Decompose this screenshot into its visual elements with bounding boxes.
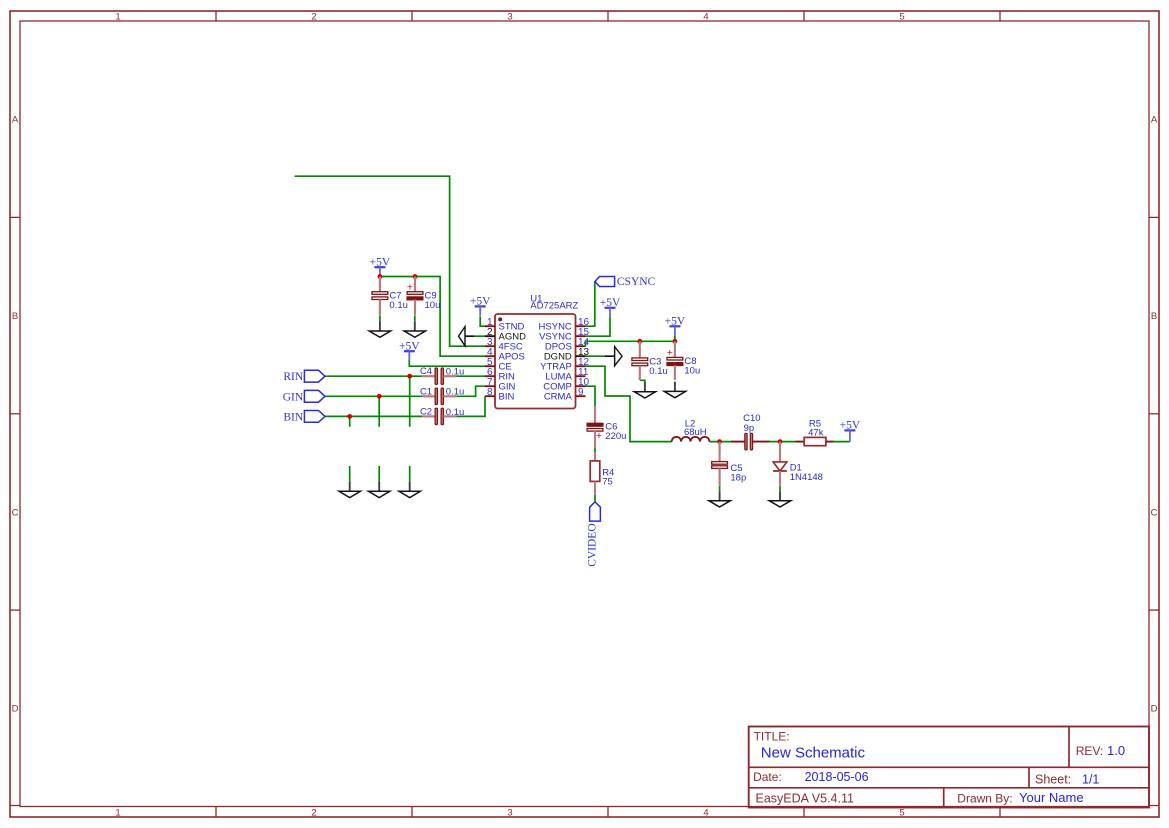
U1 pin 9 CRMA [544, 387, 586, 403]
U1 pin 16 HSYNC [539, 317, 590, 333]
svg-text:5: 5 [899, 808, 904, 819]
svg-text:75: 75 [602, 477, 613, 488]
svg-text:0.1u: 0.1u [446, 387, 465, 398]
svg-text:C1: C1 [420, 386, 432, 397]
wire BIN row [325, 415, 422, 417]
svg-text:9p: 9p [744, 423, 755, 434]
node junction GIN row [377, 394, 382, 399]
capacitor C6 220u [587, 406, 626, 447]
svg-text:1: 1 [115, 808, 120, 819]
power flag +5V at pin 1 [470, 296, 491, 316]
svg-text:Date:: Date: [753, 770, 782, 784]
wire C4 to pin 6 RIN [456, 375, 485, 377]
U1 pin 12 YTRAP [540, 357, 589, 373]
frame row letters right [1151, 115, 1158, 715]
svg-text:New Schematic: New Schematic [761, 745, 866, 762]
capacitor C9 10u [407, 277, 441, 316]
node junction C10 D1 [778, 439, 783, 444]
svg-text:1.0: 1.0 [1107, 743, 1125, 758]
svg-text:AD725ARZ: AD725ARZ [530, 301, 578, 312]
svg-text:220u: 220u [605, 431, 626, 442]
frame column numbers bottom [115, 808, 904, 819]
svg-text:EasyEDA V5.4.11: EasyEDA V5.4.11 [756, 792, 854, 806]
svg-text:+: + [596, 430, 602, 442]
wire R5 to +5V [834, 441, 850, 443]
ground below C8 [664, 382, 685, 398]
svg-text:5: 5 [899, 12, 904, 23]
ground below C3 [634, 382, 655, 398]
net port DGND arrow [605, 347, 623, 366]
svg-text:4: 4 [703, 12, 708, 23]
op-amp U1 AD725ARZ chip body [495, 293, 579, 408]
power flag +5V at pin 15 [600, 297, 621, 317]
svg-text:0.1u: 0.1u [389, 300, 408, 311]
wire +5V flag to pin 1 STND [480, 316, 485, 326]
svg-text:18p: 18p [730, 472, 746, 483]
resistor R4 75 [590, 452, 614, 494]
frame column ticks bottom [216, 807, 1000, 818]
resistor R5 47k [796, 419, 834, 446]
diode D1 1N4148 [773, 442, 823, 487]
ground below C9 [404, 316, 425, 338]
svg-text:0.1u: 0.1u [649, 366, 668, 377]
wire C10 to D1 node [770, 441, 796, 443]
U1 pin 6 RIN [485, 367, 515, 383]
svg-text:C2: C2 [420, 406, 432, 417]
frame row ticks left [10, 217, 20, 610]
svg-text:CVIDEO: CVIDEO [587, 523, 599, 566]
svg-text:1/1: 1/1 [1082, 773, 1099, 787]
wire +5V rail C7-C9 to pin 4 APOS [380, 277, 485, 357]
power flag +5V at C7 [370, 256, 391, 276]
U1 pin 7 GIN [485, 377, 516, 393]
U1 pin 3 4FSC [485, 337, 523, 353]
svg-text:4: 4 [703, 808, 708, 819]
svg-text:1: 1 [115, 12, 120, 23]
svg-text:0.1u: 0.1u [446, 367, 465, 378]
svg-text:CSYNC: CSYNC [617, 276, 656, 288]
ground below RIN column [399, 466, 420, 498]
capacitor C1 0.1u [420, 386, 464, 404]
wire C2 to pin 8 BIN [456, 396, 485, 416]
title block outline [749, 727, 1149, 808]
wire +5V to C8 junction [674, 336, 676, 342]
frame strip bottom closures [10, 805, 1159, 807]
capacitor C10 9p [731, 413, 770, 450]
frame row letters left [12, 115, 19, 715]
U1 pin 1 STND [485, 317, 525, 333]
svg-text:C: C [12, 508, 19, 519]
svg-text:TITLE:: TITLE: [754, 730, 790, 744]
svg-text:2018-05-06: 2018-05-06 [805, 770, 869, 784]
wire pin 13 DGND to net port [586, 355, 605, 357]
capacitor C3 0.1u [632, 341, 668, 380]
node junction BIN row [347, 414, 352, 419]
U1 pin 8 BIN [485, 387, 514, 403]
U1 pin 11 LUMA [545, 367, 588, 383]
svg-text:3: 3 [507, 12, 512, 23]
svg-text:BIN: BIN [499, 392, 515, 403]
svg-text:10u: 10u [425, 300, 441, 311]
net port CSYNC flag [595, 276, 656, 288]
U1 pin 5 CE [485, 357, 512, 373]
frame column numbers top [115, 12, 904, 23]
node junction C9 [413, 274, 418, 279]
capacitor C8 10u [667, 341, 701, 380]
wire pin 15 VSYNC to +5V [586, 317, 611, 336]
wire +5V flag to pin 5 CE [409, 360, 485, 366]
U1 pin 14 DPOS [545, 337, 590, 353]
capacitor C4 0.1u [420, 366, 464, 384]
svg-text:0.1u: 0.1u [446, 407, 465, 418]
svg-text:Your Name: Your Name [1019, 790, 1084, 805]
svg-text:B: B [12, 311, 18, 322]
svg-text:D: D [1151, 704, 1158, 715]
svg-text:+: + [407, 282, 413, 294]
frame column ticks top [216, 11, 1000, 21]
wire C6 to R4 [594, 448, 596, 453]
node junction L2 C5 [717, 439, 722, 444]
node junction C8 [673, 339, 678, 344]
node junction RIN row [407, 374, 412, 379]
frame row ticks right [1149, 217, 1159, 610]
power flag +5V at R5 [840, 419, 861, 441]
svg-text:C: C [1151, 508, 1158, 519]
wire C1 to pin 7 GIN [456, 386, 485, 396]
svg-text:47k: 47k [808, 427, 824, 438]
wire stub down from GIN junction [378, 396, 380, 427]
svg-text:RIN: RIN [283, 371, 304, 383]
net port GIN [283, 390, 325, 403]
ground below BIN column [339, 466, 360, 498]
ground below C7 [369, 316, 390, 338]
power flag +5V at pin 5 [399, 340, 420, 360]
node junction C3 [637, 339, 642, 344]
svg-text:9: 9 [578, 387, 584, 398]
wire stub down from BIN junction [349, 416, 351, 426]
node junction C7 [378, 274, 383, 279]
svg-text:10u: 10u [684, 366, 700, 377]
svg-text:68uH: 68uH [684, 427, 707, 438]
wire pin 16 HSYNC to CSYNC flag [586, 282, 595, 327]
svg-text:BIN: BIN [283, 411, 304, 423]
svg-text:Drawn By:: Drawn By: [957, 792, 1012, 806]
wire top-left long net to pin 3 4FSC [295, 176, 485, 346]
wire RIN row [325, 375, 422, 377]
svg-text:+: + [667, 347, 673, 359]
svg-text:Sheet:: Sheet: [1035, 773, 1071, 787]
inductor L2 68uH [672, 419, 710, 442]
svg-text:B: B [1151, 311, 1157, 322]
ground below C5 [709, 486, 730, 507]
net port RIN [283, 370, 325, 383]
svg-text:2: 2 [311, 808, 316, 819]
svg-text:A: A [1151, 115, 1158, 126]
wire pin 2 AGND to net port [474, 335, 485, 337]
capacitor C7 0.1u [372, 277, 408, 316]
wire C3 ground jog [640, 380, 645, 382]
U1 pin 4 APOS [485, 347, 525, 363]
wire L2 to C10 node [709, 441, 731, 443]
svg-text:D: D [12, 704, 19, 715]
svg-text:REV:: REV: [1076, 744, 1104, 758]
svg-text:C4: C4 [420, 366, 432, 377]
net port AGND arrow [459, 327, 475, 346]
wire pin 10 COMP to C6 [586, 386, 596, 406]
wire stub down from RIN junction [409, 376, 411, 427]
svg-text:2: 2 [311, 12, 316, 23]
svg-text:3: 3 [507, 808, 512, 819]
wire pin 12 YTRAP to L2 [586, 366, 672, 441]
svg-text:CRMA: CRMA [544, 392, 573, 403]
svg-text:1N4148: 1N4148 [790, 472, 823, 483]
capacitor C2 0.1u [420, 406, 464, 424]
net port BIN [283, 411, 325, 424]
U1 pin 2 AGND [485, 327, 526, 343]
power flag +5V at C8 [665, 316, 686, 336]
wire pin 14 DPOS to C3 C8 rail [586, 341, 675, 346]
U1 pin 13 DGND [544, 347, 590, 363]
net port CVIDEO flag [587, 502, 601, 567]
svg-text:GIN: GIN [283, 391, 304, 403]
wire GIN row [325, 395, 422, 397]
U1 pin 10 COMP [543, 377, 589, 393]
ground below GIN column [369, 466, 390, 498]
svg-text:A: A [12, 115, 19, 126]
ground below D1 [769, 486, 790, 507]
svg-text:8: 8 [487, 387, 493, 398]
wire R4 to CVIDEO port [594, 495, 596, 502]
U1 pin 15 VSYNC [539, 327, 589, 343]
capacitor C5 18p [712, 442, 747, 487]
